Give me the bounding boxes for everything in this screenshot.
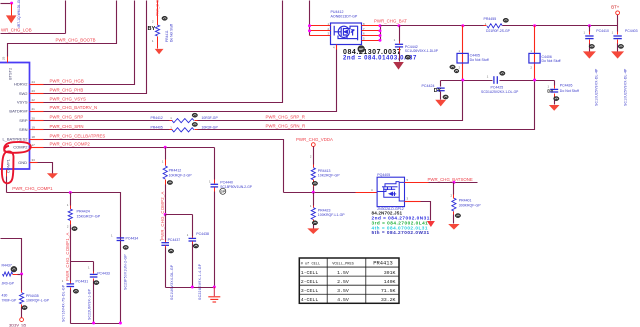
svg-text:PC4426: PC4426 — [560, 84, 573, 88]
svg-text:2-CELL: 2-CELL — [301, 279, 319, 285]
variant marker — [22, 306, 27, 310]
svg-text:300KRQF-GP: 300KRQF-GP — [459, 203, 481, 207]
svg-text:PWR_CHG_SRP: PWR_CHG_SRP — [50, 115, 84, 120]
resistor PR4411 Do Not Stuff — [157, 1, 159, 26]
pin 19 SRN — [30, 129, 44, 131]
svg-text:140K: 140K — [384, 279, 396, 285]
resistor PR4412B — [165, 148, 167, 160]
ground arrow PC4426 — [549, 105, 560, 111]
wire PWR_CHG_PHB — [44, 1, 147, 94]
svg-text:PC4424: PC4424 — [422, 84, 435, 88]
wire PWR_CHG_BAT right — [503, 25, 618, 27]
capacitor PC4424 — [440, 81, 442, 87]
port 3D3V_S5 — [20, 318, 24, 322]
ground arrow PC4424 — [435, 100, 446, 107]
junction dot — [20, 273, 23, 276]
transistor PQ4405 — [377, 177, 404, 206]
junction dot COMP2 — [164, 146, 167, 149]
variant marker — [405, 55, 410, 59]
svg-text:18: 18 — [32, 135, 36, 139]
wire sense filter — [441, 80, 493, 82]
svg-text:4.5V: 4.5V — [337, 297, 349, 303]
junction dot — [379, 39, 382, 42]
svg-text:PR4412: PR4412 — [169, 169, 182, 173]
svg-text:33: 33 — [32, 158, 36, 162]
svg-text:PWR_CHG_SRP_R: PWR_CHG_SRP_R — [266, 114, 305, 119]
svg-text:PC4403: PC4403 — [625, 29, 638, 33]
port PWR_CHG_VDDA — [311, 143, 315, 147]
svg-text:HDRV2: HDRV2 — [14, 82, 28, 87]
svg-text:SC10U25V9XX-DL-4P: SC10U25V9XX-DL-4P — [624, 68, 628, 106]
svg-text:SRN: SRN — [19, 127, 28, 132]
svg-text:L_BATPRES2: L_BATPRES2 — [2, 137, 28, 142]
ground earth symbol — [213, 287, 215, 296]
svg-text:10KRQF-L-GP: 10KRQF-L-GP — [26, 299, 50, 303]
svg-text:PR4423: PR4423 — [318, 208, 331, 212]
svg-text:Do Not Stuff: Do Not Stuff — [560, 89, 579, 93]
ground arrow PC4410 — [583, 51, 596, 58]
resistor PR4413 — [313, 147, 315, 165]
svg-text:SC10U25V9XX-DL-4P: SC10U25V9XX-DL-4P — [595, 68, 599, 106]
svg-text:25: 25 — [2, 56, 6, 60]
wire PWR_CHG_LOB — [1, 33, 66, 35]
svg-text:17: 17 — [32, 143, 36, 147]
svg-text:PC4433: PC4433 — [97, 272, 110, 276]
junction dot — [379, 24, 382, 27]
svg-text:AON6013DT-GP: AON6013DT-GP — [331, 15, 358, 19]
variant marker — [503, 18, 508, 22]
svg-text:PR4455: PR4455 — [484, 17, 497, 21]
capacitor C4405 Do Not Stuff — [462, 26, 464, 81]
resistor PR4423 — [313, 193, 315, 206]
variant marker — [618, 44, 623, 48]
junction dot — [164, 213, 167, 216]
variant marker — [168, 249, 173, 253]
wire PWR_CHG_BATDRV_N — [44, 50, 337, 112]
svg-text:PWR_CHG_PHB: PWR_CHG_PHB — [50, 88, 84, 93]
svg-text:PWR_CHG_BATDRV_N: PWR_CHG_BATDRV_N — [50, 105, 98, 110]
wire PWR_CHG_BOOTB — [8, 1, 117, 57]
wire PWR_CHG_COMP2 — [44, 147, 215, 149]
svg-text:1.5V: 1.5V — [337, 270, 349, 276]
svg-text:5th = 084.27002.0W31: 5th = 084.27002.0W31 — [372, 230, 430, 235]
svg-text:Do Not Stuff: Do Not Stuff — [542, 59, 561, 63]
svg-text:PWR_CHG_BAT: PWR_CHG_BAT — [374, 19, 407, 24]
svg-text:PWR_CHG_BOOTB: PWR_CHG_BOOTB — [56, 38, 96, 43]
svg-text:SC23P50V1UN-2-GP: SC23P50V1UN-2-GP — [123, 254, 127, 290]
svg-text:PR4413: PR4413 — [373, 261, 392, 267]
svg-text:15KGRCF-GP: 15KGRCF-GP — [77, 214, 101, 218]
svg-text:VCELL_PRES: VCELL_PRES — [332, 263, 354, 267]
capacitor PC4410 — [589, 26, 591, 32]
variant marker — [589, 44, 594, 48]
capacitor PC4442 — [399, 26, 401, 42]
wire PWR_CHG_BATSENSE — [405, 182, 429, 184]
svg-text:SC1U26V9XX-1-DL0P: SC1U26V9XX-1-DL0P — [405, 49, 439, 53]
capacitor PC4440 — [214, 148, 216, 180]
wire PWR_CHG_SRN_R — [198, 80, 535, 130]
wire PWR_CHG_SRN left — [44, 129, 170, 131]
svg-text:24: 24 — [32, 80, 36, 84]
transistor PU4412 — [331, 23, 362, 45]
svg-text:4-CELL: 4-CELL — [301, 297, 319, 303]
svg-text:GP: GP — [221, 190, 225, 194]
op-amp U4401 charger IC body — [0, 63, 30, 170]
ground arrow PC4442 — [393, 62, 404, 70]
ground arrow pin 33 — [47, 173, 58, 178]
power arrow PQ4405 source — [427, 221, 435, 227]
pin 33 GND — [30, 162, 38, 164]
junction dot — [533, 79, 536, 82]
variant marker — [454, 69, 459, 73]
svg-text:PC4438: PC4438 — [196, 232, 209, 236]
wire PWR_CHG_BAT — [381, 25, 487, 27]
svg-text:PC4437: PC4437 — [168, 238, 181, 242]
svg-text:23: 23 — [32, 89, 36, 93]
svg-text:19: 19 — [32, 126, 36, 130]
svg-text:PWR_CHG_COMP2: PWR_CHG_COMP2 — [50, 141, 91, 146]
wire branch to PC4438 — [166, 214, 193, 216]
svg-text:GND: GND — [18, 160, 27, 165]
svg-text:3D3V_S5: 3D3V_S5 — [9, 322, 27, 327]
capacitor PC4431 — [70, 282, 72, 284]
svg-text:PR4413: PR4413 — [318, 169, 331, 173]
svg-text:PWR_CHG_VSYS: PWR_CHG_VSYS — [50, 96, 87, 101]
svg-text:10R3F-GP: 10R3F-GP — [202, 125, 219, 129]
resistor PR4435 — [21, 275, 23, 291]
svg-text:SCY16V4X-7S-DL-GP: SCY16V4X-7S-DL-GP — [61, 284, 65, 322]
svg-text:PWR_CHG: PWR_CHG — [156, 0, 160, 16]
svg-text:4R7-1Q-WM-DL-GP: 4R7-1Q-WM-DL-GP — [17, 0, 21, 28]
svg-text:PWR_CHG_COMP1: PWR_CHG_COMP1 — [12, 186, 53, 191]
svg-text:PC4410: PC4410 — [596, 29, 609, 33]
capacitor PC4425 — [494, 76, 497, 84]
svg-text:22: 22 — [32, 98, 36, 102]
pin 24 HDRV2 — [30, 84, 44, 86]
svg-text:PWR_CHG_HGB: PWR_CHG_HGB — [50, 78, 84, 83]
junction dot — [461, 79, 464, 82]
junction dot — [92, 322, 95, 325]
svg-text:Do Not Stuff: Do Not Stuff — [169, 24, 173, 42]
svg-text:PC4434: PC4434 — [126, 236, 139, 240]
wire branch y261 — [71, 261, 94, 263]
wire COMP1 network bottom rail — [71, 323, 121, 325]
capacitor PC4438 — [192, 215, 194, 237]
variant marker stamp — [358, 46, 365, 53]
svg-text:71.5K: 71.5K — [381, 288, 396, 294]
ground arrow PR4401 — [448, 224, 459, 230]
capacitor C4406 Do Not Stuff — [534, 26, 536, 80]
port BT+ — [616, 11, 620, 15]
pin 4 gate PU4412 — [336, 45, 338, 50]
capacitor PC4437 — [165, 215, 167, 241]
capacitor PC4403 — [617, 15, 619, 26]
svg-text:SC18P50V1UN-2-GP: SC18P50V1UN-2-GP — [220, 185, 253, 189]
junction dot — [588, 24, 591, 27]
svg-text:430: 430 — [2, 294, 8, 298]
variant marker — [72, 227, 77, 231]
svg-text:D21R0F-2S-GP: D21R0F-2S-GP — [486, 29, 511, 33]
junction dot — [398, 24, 401, 27]
svg-text:3-CELL: 3-CELL — [301, 288, 319, 294]
pin 22 VSYS — [30, 102, 44, 104]
svg-text:BTST2: BTST2 — [8, 68, 13, 80]
variant marker — [554, 97, 559, 101]
svg-text:20: 20 — [32, 116, 36, 120]
svg-text:SC1U6V3X4-DL-GP: SC1U6V3X4-DL-GP — [170, 264, 174, 300]
svg-text:PWR_CHG_BATSONE: PWR_CHG_BATSONE — [428, 177, 473, 182]
svg-text:10KRQF-2-GP: 10KRQF-2-GP — [169, 173, 193, 177]
resistor PR4412 — [170, 120, 173, 122]
ground arrow PR4411 — [155, 49, 164, 54]
resistor PR4401 — [453, 183, 455, 195]
pin 18 L_BATPRES2 — [30, 139, 44, 141]
wire gate net y192 — [284, 192, 356, 194]
variant marker — [192, 122, 197, 126]
svg-text:PC4431: PC4431 — [76, 280, 89, 284]
variant marker — [73, 289, 78, 293]
variant marker — [312, 221, 317, 225]
wire from left edge — [1, 239, 22, 275]
resistor R4437 — [3, 272, 13, 276]
junction dot — [119, 322, 122, 325]
variant marker — [455, 214, 460, 218]
pin 20 SRP — [30, 120, 44, 122]
wire PWR_CHG_COMP1 — [7, 193, 121, 324]
pin 21 BATDRV# — [30, 111, 44, 113]
wire PQ4405 source to power arrow — [405, 201, 421, 203]
svg-text:21: 21 — [32, 107, 36, 111]
wire COMP2 network bottom rail — [166, 287, 215, 289]
capacitor PC4426 — [554, 81, 556, 86]
variant marker — [312, 181, 317, 185]
variant marker — [94, 281, 99, 285]
junction dot — [69, 191, 72, 194]
wire PU4412 left pins — [309, 1, 311, 36]
svg-text:10K2RQF-GP: 10K2RQF-GP — [318, 174, 340, 178]
ground arrow PR4423 — [307, 228, 319, 234]
svg-text:JR0-GP: JR0-GP — [2, 281, 15, 285]
wire PWR_CHG_SRP_R — [198, 81, 463, 121]
wire PWR_CHG_SRP left — [44, 120, 170, 122]
svg-text:PR4412: PR4412 — [151, 116, 163, 120]
svg-text:GP: GP — [359, 47, 363, 51]
junction dot — [461, 24, 464, 27]
pin 25 BTST2 — [7, 57, 9, 63]
svg-text:PR4435: PR4435 — [26, 294, 39, 298]
svg-text:PC4440: PC4440 — [220, 181, 233, 185]
svg-text:DY: DY — [547, 89, 553, 94]
resistor PR4455 — [484, 25, 487, 27]
junction dot — [533, 24, 536, 27]
svg-text:7R0F-GP: 7R0F-GP — [2, 298, 17, 302]
svg-text:SC22U6V9X-1-4-GP: SC22U6V9X-1-4-GP — [198, 263, 202, 300]
junction dot — [191, 286, 194, 289]
svg-text:PWR_CHG_VDDA: PWR_CHG_VDDA — [296, 137, 333, 142]
svg-text:PR4411: PR4411 — [165, 30, 169, 42]
capacitor PC4433 — [93, 262, 95, 272]
variant marker — [500, 71, 505, 75]
variant marker — [443, 95, 448, 99]
wire PU4412 right pins — [362, 25, 381, 27]
svg-text:1-CELL: 1-CELL — [301, 270, 319, 276]
svg-text:PU4412: PU4412 — [331, 10, 344, 14]
variant marker — [193, 244, 198, 248]
variant marker — [11, 266, 17, 272]
svg-text:WR_CHG_LOB: WR_CHG_LOB — [1, 28, 32, 33]
svg-text:2.5V: 2.5V — [337, 279, 349, 285]
svg-text:# of CELL: # of CELL — [301, 262, 320, 267]
svg-text:PWR_CHG_CELLBATPRES: PWR_CHG_CELLBATPRES — [50, 133, 106, 138]
svg-text:VSYS: VSYS — [17, 100, 28, 105]
junction dot — [213, 286, 216, 289]
svg-text:33.2K: 33.2K — [381, 297, 396, 303]
svg-text:BATDRV#: BATDRV# — [9, 108, 28, 113]
junction dot — [308, 29, 311, 32]
svg-text:SW2: SW2 — [19, 91, 28, 96]
red annotation circles COMP1 COMP2 — [4, 142, 31, 153]
junction dot — [452, 181, 455, 184]
junction dot — [10, 2, 13, 5]
table cell count — [299, 258, 399, 303]
pin 23 SW2 — [30, 93, 44, 95]
ground arrow PC4403 — [611, 51, 624, 58]
svg-text:BY: BY — [148, 26, 156, 32]
wire PWR_CHG_CELLBATPRES — [44, 140, 284, 193]
svg-text:10R3F-GP: 10R3F-GP — [202, 116, 219, 120]
svg-text:PWR_CHG_SRN_R: PWR_CHG_SRN_R — [266, 124, 306, 129]
svg-text:SRP: SRP — [19, 118, 28, 123]
junction dot — [379, 29, 382, 32]
junction dot — [308, 24, 311, 27]
resistor PR4424 — [70, 193, 72, 206]
svg-text:PR4401: PR4401 — [459, 199, 472, 203]
resistor PR4405 — [170, 129, 173, 131]
svg-text:SC22U6V9X-1-GP: SC22U6V9X-1-GP — [87, 288, 91, 320]
svg-text:PQ4405: PQ4405 — [377, 173, 390, 177]
junction dot — [379, 34, 382, 37]
variant marker — [450, 65, 455, 69]
pin 17 COMP2 — [30, 147, 44, 149]
svg-text:SCD1U25V2KX-1-DL-GP: SCD1U25V2KX-1-DL-GP — [481, 90, 519, 94]
junction dot — [312, 191, 315, 194]
svg-text:100KRQF-L1-GP: 100KRQF-L1-GP — [318, 213, 346, 217]
pin 16 COMP1 stub — [6, 170, 8, 177]
capacitor PC4434 — [117, 238, 125, 241]
svg-text:COMP2: COMP2 — [13, 145, 28, 150]
ground arrow top-left — [11, 4, 13, 16]
variant marker stamp GP — [220, 188, 226, 194]
svg-text:301K: 301K — [384, 270, 396, 276]
svg-text:Do Not Stuff: Do Not Stuff — [470, 58, 489, 62]
wire PWR_CHG_VSYS — [44, 1, 283, 103]
svg-text:PR4405: PR4405 — [151, 125, 163, 129]
variant marker — [123, 245, 128, 249]
svg-text:PR4424: PR4424 — [77, 210, 90, 214]
wire PWR_CHG_HGB — [44, 1, 135, 85]
svg-text:PWR_CHG_COMP2_A: PWR_CHG_COMP2_A — [160, 191, 165, 240]
svg-text:R4437: R4437 — [2, 264, 12, 268]
variant marker — [192, 113, 197, 117]
svg-text:PWR_CHG_COMP1_A: PWR_CHG_COMP1_A — [65, 232, 70, 281]
wire top-left to ground symbol — [1, 3, 12, 5]
svg-text:BT+: BT+ — [611, 5, 619, 10]
svg-text:3.5V: 3.5V — [337, 288, 349, 294]
variant marker — [167, 180, 172, 184]
svg-text:PWR_CHG_SRN: PWR_CHG_SRN — [50, 124, 84, 129]
variant marker — [162, 16, 167, 20]
svg-text:DY: DY — [434, 88, 442, 94]
